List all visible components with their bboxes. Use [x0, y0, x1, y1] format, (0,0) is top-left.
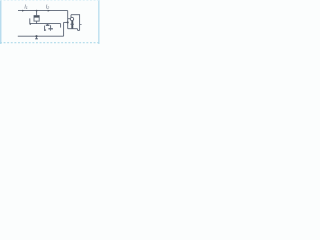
- svg-text:I1: I1: [24, 4, 27, 10]
- svg-text:I2: I2: [46, 4, 49, 10]
